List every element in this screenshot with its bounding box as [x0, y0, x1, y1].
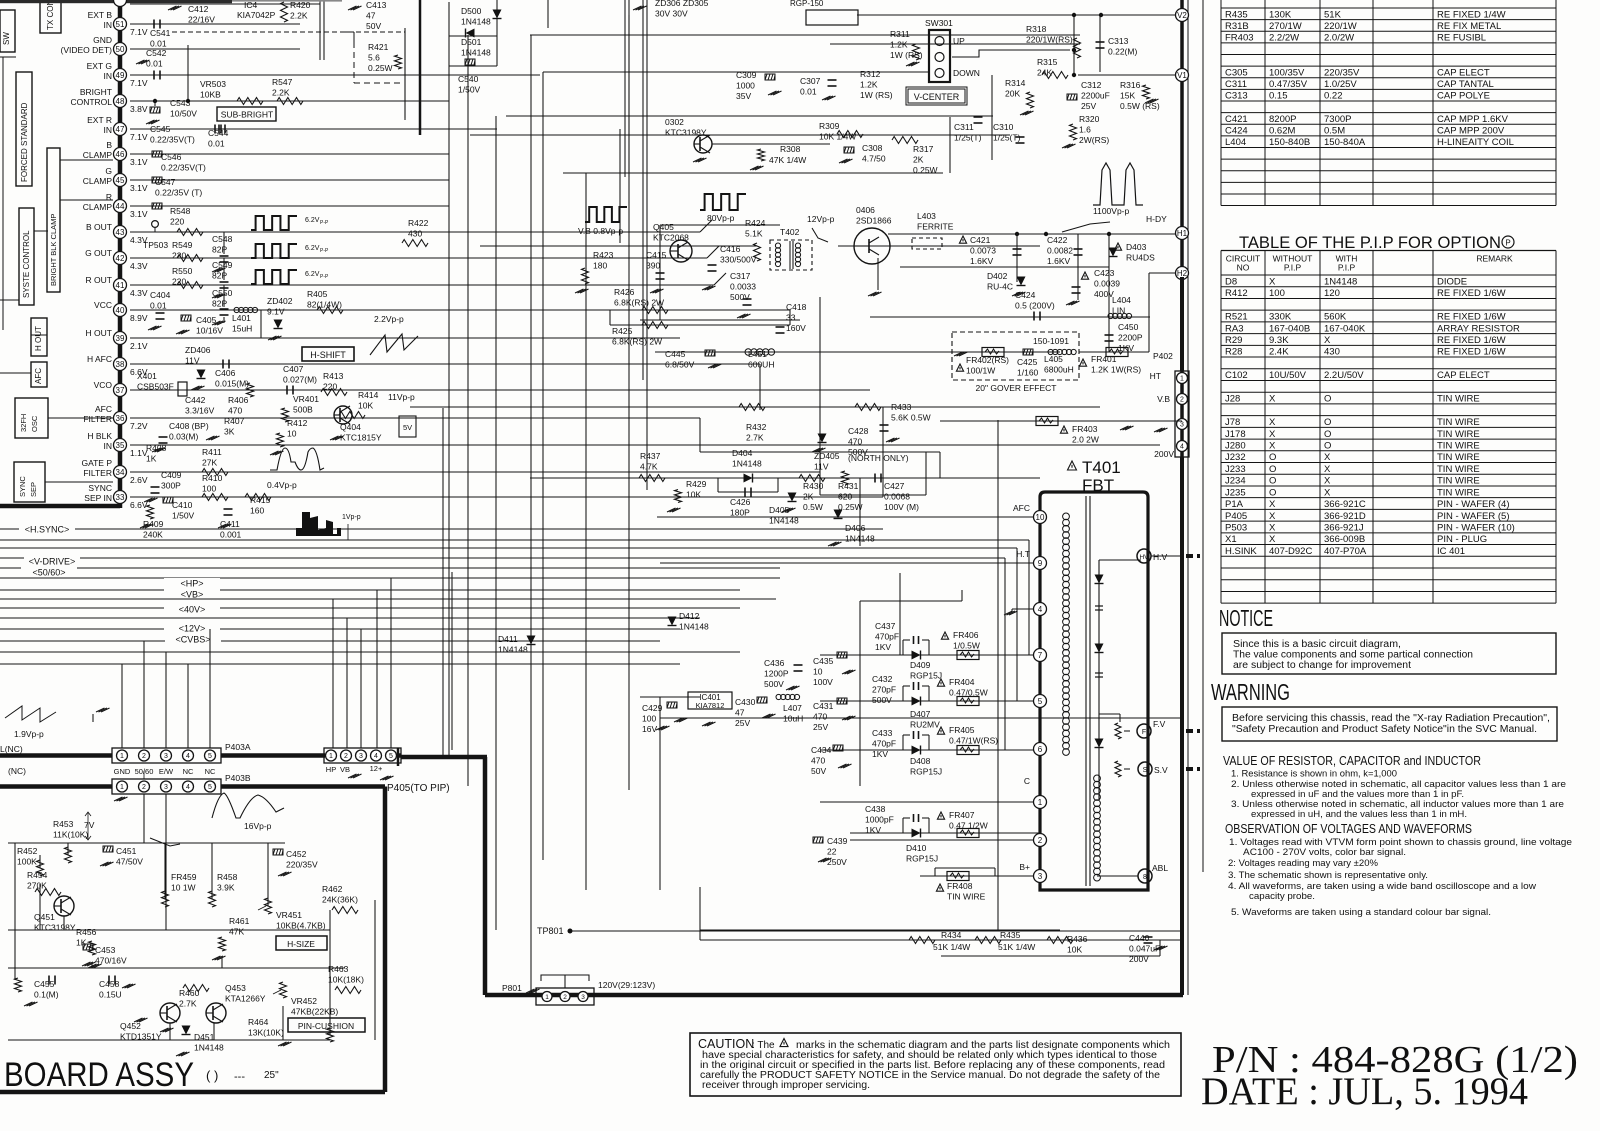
- svg-text:C405: C405: [196, 315, 217, 325]
- svg-text:VCC: VCC: [94, 300, 112, 310]
- svg-text:O: O: [1269, 452, 1276, 463]
- svg-text:R424: R424: [745, 218, 766, 228]
- svg-text:R461: R461: [229, 916, 250, 926]
- svg-text:H.T: H.T: [1016, 549, 1030, 559]
- svg-text:5: 5: [1038, 697, 1043, 706]
- svg-text:IN: IN: [104, 125, 113, 135]
- svg-text:2.2U/50V: 2.2U/50V: [1324, 370, 1364, 381]
- svg-text:R433: R433: [891, 402, 912, 412]
- svg-text:C423: C423: [1094, 268, 1115, 278]
- svg-text:7V: 7V: [84, 820, 95, 830]
- svg-text:47/50V: 47/50V: [116, 857, 143, 867]
- svg-text:150-840A: 150-840A: [1324, 137, 1366, 148]
- svg-text:R28: R28: [1225, 347, 1242, 358]
- svg-text:0.22: 0.22: [1324, 91, 1343, 102]
- svg-text:P801: P801: [502, 983, 522, 993]
- svg-text:12Vp-p: 12Vp-p: [807, 214, 835, 224]
- svg-text:100V: 100V: [813, 677, 833, 687]
- svg-text:2.2Vp-p: 2.2Vp-p: [374, 314, 404, 324]
- svg-text:4.7K: 4.7K: [640, 462, 658, 472]
- svg-text:10K: 10K: [1067, 945, 1082, 955]
- svg-text:D410: D410: [906, 843, 927, 853]
- svg-text:C450: C450: [1118, 322, 1139, 332]
- svg-text:2: 2: [1180, 397, 1184, 404]
- svg-text:C549: C549: [212, 260, 233, 270]
- svg-text:0.047uF: 0.047uF: [1129, 944, 1160, 954]
- svg-text:9.3K: 9.3K: [1269, 335, 1289, 346]
- svg-text:6800uH: 6800uH: [1044, 365, 1074, 375]
- svg-text:TIN WIRE: TIN WIRE: [1437, 394, 1480, 405]
- svg-text:L404: L404: [1112, 295, 1131, 305]
- svg-text:7: 7: [1038, 651, 1043, 660]
- svg-text:FILTER: FILTER: [83, 468, 112, 478]
- svg-text:0.22/35V (T): 0.22/35V (T): [155, 188, 202, 198]
- svg-text:R550: R550: [172, 266, 193, 276]
- svg-text:500B: 500B: [293, 405, 313, 415]
- svg-text:47K: 47K: [229, 927, 244, 937]
- svg-text:22: 22: [827, 847, 837, 857]
- svg-text:<12V>: <12V>: [179, 624, 206, 634]
- svg-text:R435: R435: [1225, 9, 1248, 20]
- svg-text:D408: D408: [910, 756, 931, 766]
- svg-text:1.6KV: 1.6KV: [1047, 256, 1070, 266]
- svg-text:30V 30V: 30V 30V: [655, 9, 688, 19]
- svg-text:C440: C440: [1129, 933, 1150, 943]
- svg-text:R309: R309: [819, 121, 840, 131]
- svg-text:R31B: R31B: [1225, 21, 1249, 32]
- svg-text:470: 470: [848, 437, 862, 447]
- svg-text:100: 100: [642, 714, 656, 724]
- svg-text:0.5M: 0.5M: [1324, 126, 1345, 137]
- svg-text:R437: R437: [640, 451, 661, 461]
- svg-text:46: 46: [116, 150, 125, 159]
- svg-text:10K: 10K: [358, 401, 373, 411]
- svg-text:R411: R411: [202, 447, 222, 457]
- svg-text:R422: R422: [408, 218, 429, 228]
- svg-text:C547: C547: [155, 177, 176, 187]
- svg-text:RGP15J: RGP15J: [910, 671, 942, 681]
- svg-text:50: 50: [116, 45, 125, 54]
- svg-text:TIN WIRE: TIN WIRE: [1437, 429, 1480, 440]
- svg-text:10U/50V: 10U/50V: [1269, 370, 1307, 381]
- svg-text:C545: C545: [150, 124, 171, 134]
- svg-text:22/16V: 22/16V: [188, 15, 215, 25]
- svg-text:NC: NC: [183, 767, 194, 776]
- svg-text:3: 3: [164, 753, 168, 760]
- svg-text:ZD405: ZD405: [814, 451, 840, 461]
- svg-text:EXT B: EXT B: [88, 10, 113, 20]
- svg-text:200V: 200V: [1129, 954, 1149, 964]
- svg-text:2: 2: [1038, 836, 1043, 845]
- svg-text:3.1V: 3.1V: [130, 183, 148, 193]
- svg-text:J233: J233: [1225, 464, 1246, 475]
- svg-text:TIN WIRE: TIN WIRE: [1437, 417, 1480, 428]
- svg-text:130K: 130K: [1269, 9, 1292, 20]
- svg-text:47: 47: [735, 708, 745, 718]
- svg-text:J178: J178: [1225, 429, 1246, 440]
- svg-text:C546: C546: [161, 152, 182, 162]
- svg-text:12+: 12+: [370, 764, 383, 773]
- svg-text:C452: C452: [286, 849, 307, 859]
- svg-text:50V: 50V: [366, 21, 381, 31]
- svg-text:C413: C413: [366, 0, 387, 10]
- svg-text:X: X: [1269, 534, 1276, 545]
- svg-text:X: X: [1324, 452, 1331, 463]
- svg-text:5. Waveforms are taken using: 5. Waveforms are taken using a standard …: [1231, 907, 1491, 918]
- svg-text:PIN - WAFER (5): PIN - WAFER (5): [1437, 511, 1509, 522]
- svg-text:C550: C550: [212, 288, 233, 298]
- svg-text:TIN WIRE: TIN WIRE: [1437, 464, 1480, 475]
- svg-text:C426: C426: [730, 497, 751, 507]
- svg-text:X: X: [1269, 499, 1276, 510]
- svg-text:KTC1815Y: KTC1815Y: [340, 433, 382, 443]
- svg-text:<50/60>: <50/60>: [32, 568, 65, 578]
- svg-text:0.0033: 0.0033: [730, 282, 756, 292]
- svg-text:<HP>: <HP>: [180, 579, 203, 589]
- svg-text:C418: C418: [786, 302, 807, 312]
- svg-text:470: 470: [228, 406, 242, 416]
- svg-text:VCO: VCO: [94, 380, 113, 390]
- svg-text:100K: 100K: [17, 857, 37, 867]
- svg-text:P.I.P: P.I.P: [1338, 263, 1356, 273]
- svg-text:H-LINEAITY COIL: H-LINEAITY COIL: [1437, 137, 1514, 148]
- svg-text:1N4148: 1N4148: [194, 1043, 224, 1053]
- svg-text:P403B: P403B: [225, 773, 251, 783]
- svg-text:P-P: P-P: [320, 248, 329, 254]
- svg-text:C432: C432: [872, 674, 893, 684]
- svg-text:3.8V: 3.8V: [130, 104, 148, 114]
- svg-text:PIN - PLUG: PIN - PLUG: [1437, 534, 1487, 545]
- svg-text:TP503: TP503: [143, 240, 168, 250]
- svg-text:R405: R405: [307, 289, 328, 299]
- svg-text:0.4Vp-p: 0.4Vp-p: [267, 480, 297, 490]
- svg-text:KTA1266Y: KTA1266Y: [225, 994, 266, 1004]
- svg-text:100: 100: [1269, 288, 1285, 299]
- svg-text:7.1V: 7.1V: [130, 27, 148, 37]
- svg-text:J234: J234: [1225, 476, 1246, 487]
- svg-text:C435: C435: [813, 656, 834, 666]
- svg-text:3: 3: [1180, 422, 1184, 429]
- svg-text:10 1W: 10 1W: [171, 883, 196, 893]
- svg-text:430: 430: [1324, 347, 1340, 358]
- svg-text:2.6V: 2.6V: [130, 475, 148, 485]
- svg-text:470: 470: [813, 712, 827, 722]
- svg-text:T401: T401: [1082, 458, 1121, 477]
- svg-text:FR406: FR406: [953, 630, 979, 640]
- svg-text:FBT: FBT: [1082, 476, 1114, 495]
- svg-text:C416: C416: [720, 244, 741, 254]
- svg-text:8200P: 8200P: [1269, 114, 1296, 125]
- svg-text:5V: 5V: [403, 423, 412, 432]
- svg-text:ZD402: ZD402: [267, 296, 293, 306]
- svg-text:TIN WIRE: TIN WIRE: [1437, 440, 1480, 451]
- svg-text:2200uF: 2200uF: [1081, 91, 1110, 101]
- svg-text:C434: C434: [811, 745, 832, 755]
- svg-text:366-921D: 366-921D: [1324, 511, 1366, 522]
- svg-text:E/W: E/W: [159, 767, 174, 776]
- svg-text:R408: R408: [146, 443, 167, 453]
- svg-text:D411: D411: [498, 634, 518, 644]
- svg-text:FR401: FR401: [1091, 354, 1117, 364]
- svg-text:80Vp-p: 80Vp-p: [707, 213, 735, 223]
- svg-text:3.1V: 3.1V: [130, 209, 148, 219]
- svg-text:47KB(22KB): 47KB(22KB): [291, 1007, 338, 1017]
- svg-text:1/50V: 1/50V: [172, 511, 195, 521]
- svg-text:3.9K: 3.9K: [217, 883, 235, 893]
- svg-text:470: 470: [811, 756, 825, 766]
- svg-text:1.0/25V: 1.0/25V: [1324, 79, 1357, 90]
- svg-text:C445: C445: [665, 349, 686, 359]
- svg-text:D412: D412: [679, 611, 700, 621]
- svg-text:P402: P402: [1153, 351, 1173, 361]
- svg-text:1Vp-p: 1Vp-p: [342, 514, 361, 521]
- svg-text:G OUT: G OUT: [85, 248, 112, 258]
- svg-text:20K: 20K: [1005, 89, 1020, 99]
- svg-text:47K 1/4W: 47K 1/4W: [769, 155, 806, 165]
- svg-text:2K: 2K: [803, 492, 814, 502]
- svg-text:R316: R316: [1120, 80, 1141, 90]
- svg-text:5: 5: [208, 753, 212, 760]
- svg-text:1KV: 1KV: [875, 642, 891, 652]
- svg-text:1. Resistance is shown in ohm: 1. Resistance is shown in ohm, k=1,000: [1231, 769, 1397, 780]
- svg-text:51K 1/4W: 51K 1/4W: [933, 942, 970, 952]
- svg-text:NO: NO: [1237, 263, 1250, 273]
- svg-text:167-040K: 167-040K: [1324, 323, 1366, 334]
- svg-text:10KB(4.7KB): 10KB(4.7KB): [276, 921, 326, 931]
- svg-text:---: ---: [234, 1071, 245, 1083]
- svg-text:P503: P503: [1225, 523, 1247, 534]
- svg-text:25V: 25V: [813, 722, 828, 732]
- svg-text:R314: R314: [1005, 78, 1026, 88]
- svg-text:366-009B: 366-009B: [1324, 534, 1365, 545]
- svg-text:10: 10: [1036, 513, 1045, 522]
- svg-text:R OUT: R OUT: [86, 275, 112, 285]
- svg-text:0.0073: 0.0073: [970, 246, 996, 256]
- svg-text:120: 120: [1324, 288, 1340, 299]
- svg-text:Q452: Q452: [120, 1021, 141, 1031]
- svg-text:R548: R548: [170, 206, 191, 216]
- svg-text:600UH: 600UH: [748, 360, 774, 370]
- svg-text:11V: 11V: [814, 462, 829, 472]
- svg-text:X401: X401: [137, 371, 157, 381]
- svg-text:4.3V: 4.3V: [130, 261, 148, 271]
- svg-text:2.2K: 2.2K: [272, 88, 290, 98]
- svg-text:15uH: 15uH: [232, 324, 252, 334]
- svg-text:R425: R425: [612, 326, 633, 336]
- svg-text:R521: R521: [1225, 312, 1248, 323]
- svg-text:100V (M): 100V (M): [884, 502, 919, 512]
- svg-text:24K(36K): 24K(36K): [322, 895, 358, 905]
- svg-text:G: G: [105, 166, 112, 176]
- svg-text:4: 4: [1180, 444, 1184, 451]
- svg-text:R431: R431: [838, 481, 859, 491]
- svg-text:C307: C307: [800, 76, 821, 86]
- svg-text:R456: R456: [76, 927, 97, 937]
- svg-text:R410: R410: [202, 473, 223, 483]
- svg-text:2.7K: 2.7K: [746, 433, 764, 443]
- svg-text:UP: UP: [953, 36, 965, 46]
- svg-text:82P: 82P: [212, 245, 227, 255]
- svg-text:AFC: AFC: [95, 404, 112, 414]
- svg-text:X: X: [1269, 276, 1276, 287]
- svg-text:R320: R320: [1079, 114, 1100, 124]
- svg-text:VR401: VR401: [293, 394, 319, 404]
- svg-text:FR402(RS): FR402(RS): [966, 355, 1009, 365]
- svg-text:SW: SW: [2, 32, 11, 45]
- svg-text:2.0/2W: 2.0/2W: [1324, 33, 1354, 44]
- svg-text:C428: C428: [848, 426, 869, 436]
- svg-text:150-840B: 150-840B: [1269, 137, 1310, 148]
- svg-text:270pF: 270pF: [872, 685, 896, 695]
- svg-text:0.22/35V(T): 0.22/35V(T): [150, 135, 195, 145]
- svg-text:IN: IN: [104, 71, 113, 81]
- svg-text:0.5W: 0.5W: [803, 502, 823, 512]
- svg-text:C436: C436: [764, 658, 785, 668]
- svg-text:1.2K: 1.2K: [860, 80, 878, 90]
- svg-text:F.V: F.V: [1153, 719, 1166, 729]
- svg-text:D404: D404: [732, 448, 753, 458]
- svg-text:1.6KV: 1.6KV: [970, 256, 993, 266]
- svg-text:FILTER: FILTER: [83, 414, 112, 424]
- svg-text:C542: C542: [146, 48, 167, 58]
- svg-text:2W(RS): 2W(RS): [1079, 135, 1109, 145]
- svg-text:RU4DS: RU4DS: [1126, 253, 1155, 263]
- svg-text:0.015(M): 0.015(M): [215, 379, 249, 389]
- svg-text:L407: L407: [783, 703, 802, 713]
- svg-text:B+: B+: [1019, 862, 1030, 872]
- svg-text:VALUE OF RESISTOR, CAPACITOR a: VALUE OF RESISTOR, CAPACITOR and INDUCTO…: [1223, 753, 1481, 768]
- svg-text:<V-DRIVE>: <V-DRIVE>: [29, 557, 76, 567]
- svg-text:C421: C421: [970, 235, 991, 245]
- svg-text:R311: R311: [890, 29, 910, 39]
- svg-text:H AFC: H AFC: [87, 354, 112, 364]
- svg-text:1KV: 1KV: [872, 749, 888, 759]
- svg-text:HT: HT: [1150, 371, 1161, 381]
- svg-text:2: 2: [142, 753, 146, 760]
- svg-text:0.0039: 0.0039: [1094, 279, 1120, 289]
- svg-text:P.I.P: P.I.P: [1284, 263, 1302, 273]
- svg-text:VR503: VR503: [200, 79, 226, 89]
- svg-text:38: 38: [116, 360, 125, 369]
- svg-text:C442: C442: [185, 395, 206, 405]
- svg-text:0.47/1W(RS): 0.47/1W(RS): [949, 736, 998, 746]
- svg-text:15K: 15K: [1120, 91, 1135, 101]
- svg-text:BOARD ASSY: BOARD ASSY: [4, 1056, 194, 1094]
- svg-text:2SD1866: 2SD1866: [856, 216, 892, 226]
- svg-text:Q405: Q405: [653, 222, 674, 232]
- svg-text:10: 10: [813, 667, 823, 677]
- svg-text:P405: P405: [1225, 511, 1247, 522]
- svg-text:0.01: 0.01: [150, 39, 167, 49]
- svg-text:C543: C543: [170, 98, 191, 108]
- svg-text:R458: R458: [217, 872, 238, 882]
- svg-text:1N4148: 1N4148: [498, 645, 528, 655]
- svg-text:0406: 0406: [856, 205, 875, 215]
- svg-text:C433: C433: [872, 728, 893, 738]
- svg-text:TIN WIRE: TIN WIRE: [947, 892, 986, 902]
- svg-text:IN: IN: [104, 441, 113, 451]
- svg-text:SW301: SW301: [925, 18, 953, 28]
- svg-text:1/50V: 1/50V: [458, 85, 481, 95]
- svg-text:O: O: [1324, 394, 1331, 405]
- svg-text:C409: C409: [161, 470, 182, 480]
- svg-text:7.1V: 7.1V: [130, 78, 148, 88]
- svg-text:P-P: P-P: [320, 220, 329, 226]
- svg-text:C412: C412: [188, 4, 209, 14]
- svg-text:11K(10K): 11K(10K): [53, 830, 88, 840]
- svg-text:1N4148: 1N4148: [461, 48, 491, 58]
- svg-text:Q451: Q451: [34, 912, 55, 922]
- svg-text:1: 1: [1180, 376, 1184, 383]
- svg-text:180P: 180P: [730, 508, 750, 518]
- svg-text:X: X: [1269, 394, 1276, 405]
- svg-text:<H.SYNC>: <H.SYNC>: [25, 525, 70, 535]
- svg-text:F: F: [1142, 729, 1146, 736]
- svg-text:11Vp-p: 11Vp-p: [388, 392, 415, 402]
- svg-text:P403A: P403A: [225, 742, 251, 752]
- svg-text:270/1W: 270/1W: [1269, 21, 1302, 32]
- svg-text:16V: 16V: [642, 724, 657, 734]
- svg-text:J232: J232: [1225, 452, 1246, 463]
- svg-text:RE FUSIBL: RE FUSIBL: [1437, 33, 1486, 44]
- svg-text:C451: C451: [116, 846, 137, 856]
- svg-text:FR404: FR404: [949, 677, 975, 687]
- svg-text:5: 5: [389, 753, 393, 760]
- svg-text:10/50V: 10/50V: [170, 109, 197, 119]
- svg-text:R547: R547: [272, 77, 293, 87]
- svg-text:PIN - WAFER (10): PIN - WAFER (10): [1437, 523, 1515, 534]
- svg-text:R421: R421: [368, 42, 389, 52]
- svg-text:TX CON: TX CON: [46, 0, 55, 30]
- svg-text:CONTROL: CONTROL: [70, 97, 112, 107]
- svg-text:48: 48: [116, 97, 125, 106]
- svg-text:C102: C102: [1225, 370, 1248, 381]
- svg-text:2.2/2W: 2.2/2W: [1269, 33, 1299, 44]
- svg-text:J28: J28: [1225, 394, 1240, 405]
- svg-text:RE FIX METAL: RE FIX METAL: [1437, 21, 1501, 32]
- svg-text:4.7/50: 4.7/50: [862, 154, 886, 164]
- svg-text:RE FIXED 1/6W: RE FIXED 1/6W: [1437, 312, 1506, 323]
- svg-text:167-040B: 167-040B: [1269, 323, 1310, 334]
- svg-text:500V: 500V: [872, 695, 892, 705]
- svg-text:SEP IN: SEP IN: [84, 493, 112, 503]
- svg-text:X: X: [1324, 335, 1331, 346]
- svg-text:X: X: [1324, 476, 1331, 487]
- svg-text:330K: 330K: [1269, 312, 1292, 323]
- svg-text:expressed in uH, and the value: expressed in uH, and the values less tha…: [1251, 809, 1467, 820]
- svg-text:OSC: OSC: [30, 415, 39, 432]
- svg-text:0.25W: 0.25W: [368, 63, 393, 73]
- svg-text:V-CENTER: V-CENTER: [914, 92, 960, 102]
- svg-text:1N4148: 1N4148: [732, 459, 762, 469]
- svg-text:IC 401: IC 401: [1437, 546, 1465, 557]
- svg-text:2200P: 2200P: [1118, 333, 1143, 343]
- svg-text:R406: R406: [228, 395, 249, 405]
- svg-text:41: 41: [116, 281, 125, 290]
- svg-text:7300P: 7300P: [1324, 114, 1351, 125]
- svg-text:10: 10: [287, 429, 297, 439]
- svg-text:C311: C311: [1225, 79, 1247, 90]
- svg-text:1N4148: 1N4148: [845, 534, 875, 544]
- svg-text:R462: R462: [322, 884, 343, 894]
- svg-text:4: 4: [186, 784, 190, 791]
- svg-text:CAP MPP 200V: CAP MPP 200V: [1437, 126, 1505, 137]
- svg-text:220/35V: 220/35V: [1324, 67, 1360, 78]
- svg-text:CLAMP: CLAMP: [83, 150, 113, 160]
- svg-text:C455: C455: [34, 979, 55, 989]
- svg-text:35V: 35V: [736, 91, 751, 101]
- svg-text:R429: R429: [686, 479, 707, 489]
